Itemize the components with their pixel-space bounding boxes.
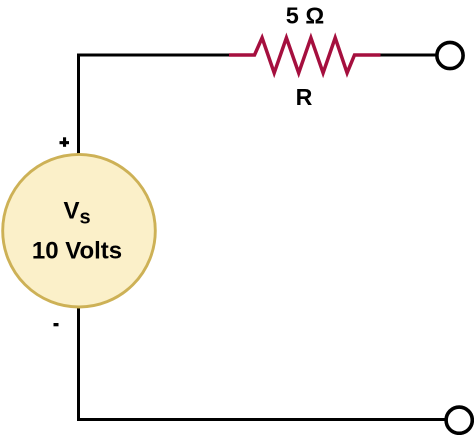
svg-text:R: R (296, 84, 313, 110)
svg-text:10 Volts: 10 Volts (32, 237, 122, 264)
svg-text:5 Ω: 5 Ω (286, 3, 324, 29)
